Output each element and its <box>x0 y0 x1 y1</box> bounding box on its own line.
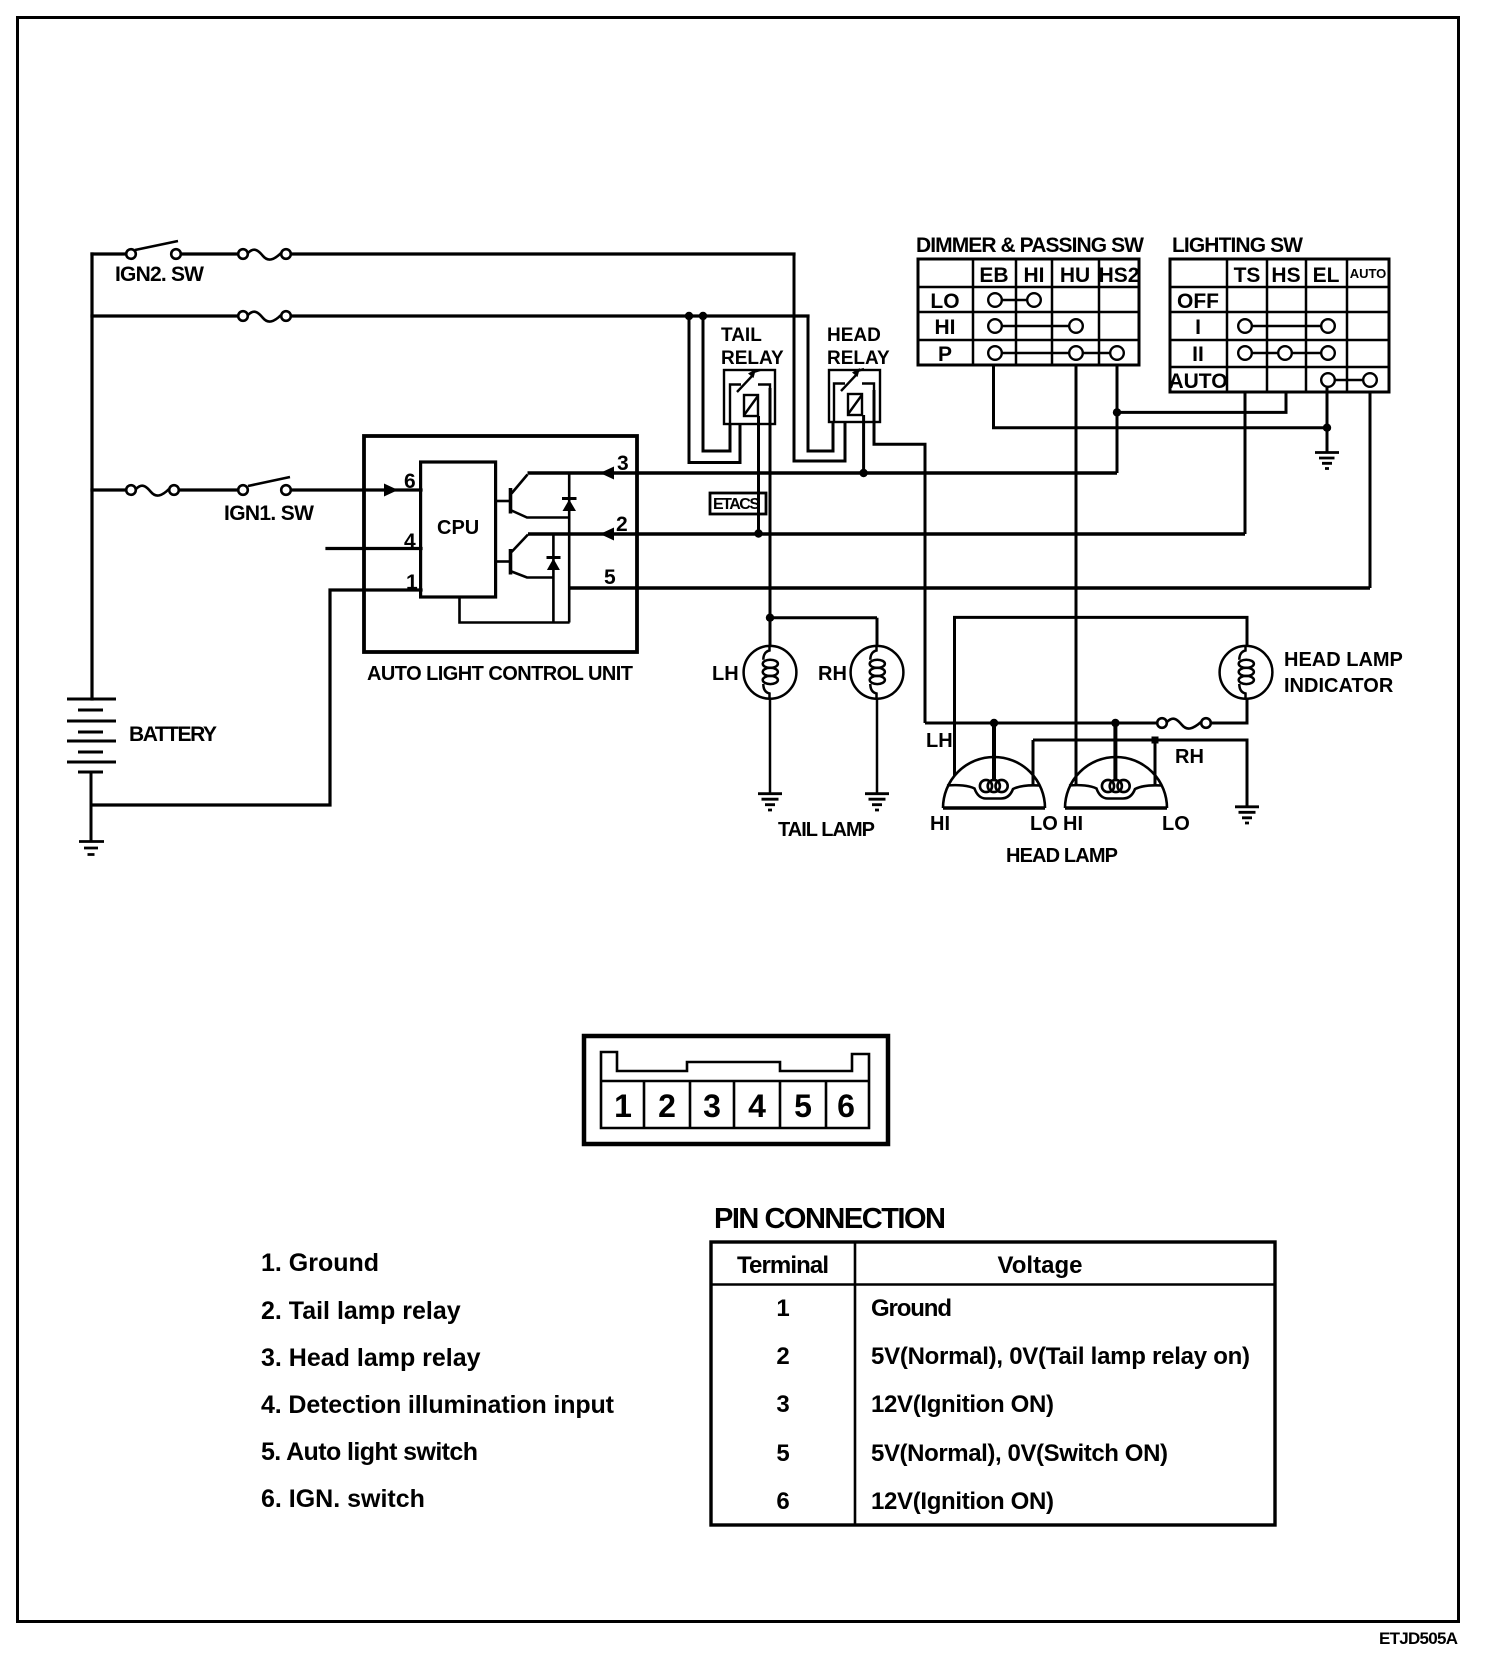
svg-text:TAIL: TAIL <box>721 325 762 346</box>
wire LO rail y=740 <box>1033 740 1247 807</box>
svg-text:1: 1 <box>614 1088 632 1124</box>
svg-text:5: 5 <box>794 1088 812 1124</box>
svg-text:RELAY: RELAY <box>827 348 890 369</box>
svg-text:Voltage: Voltage <box>998 1252 1083 1279</box>
svg-text:AUTO: AUTO <box>1350 266 1387 281</box>
svg-text:1: 1 <box>406 571 418 594</box>
fuse head lamp indicator <box>1157 718 1211 728</box>
wire AUTO column drop to wire5 <box>1369 392 1372 588</box>
HEAD RELAY wiring risers <box>794 254 845 461</box>
wire tail lamp feed <box>770 618 877 647</box>
svg-text:LH: LH <box>712 663 739 685</box>
wire HU column long drop <box>1075 365 1078 785</box>
svg-text:5V(Normal), 0V(Tail lamp relay: 5V(Normal), 0V(Tail lamp relay on) <box>871 1343 1250 1370</box>
svg-text:ETJD505A: ETJD505A <box>1379 1629 1458 1648</box>
svg-text:6: 6 <box>837 1088 855 1124</box>
wire pin4 stub <box>327 547 421 550</box>
junction dot wire2 etacs <box>754 529 762 537</box>
TAIL RELAY wiring risers <box>689 316 740 463</box>
svg-text:HU: HU <box>1060 264 1090 287</box>
svg-text:3: 3 <box>776 1391 789 1418</box>
svg-text:HI: HI <box>935 316 956 339</box>
IGN2 fuse <box>238 249 291 259</box>
wire riser B head relay <box>808 316 833 451</box>
svg-text:4: 4 <box>748 1088 766 1124</box>
svg-text:HS2: HS2 <box>1099 264 1140 287</box>
svg-text:HI: HI <box>1063 813 1083 835</box>
svg-text:3: 3 <box>703 1088 721 1124</box>
svg-text:BATTERY: BATTERY <box>129 723 217 746</box>
svg-text:HEAD LAMP: HEAD LAMP <box>1284 649 1403 671</box>
lamp tail LH <box>744 646 797 794</box>
headlamp dome LH <box>943 757 1045 808</box>
wire fuse feed row y=316 <box>92 314 808 317</box>
TAIL LAMP branch <box>766 614 774 622</box>
svg-text:6. IGN. switch: 6. IGN. switch <box>261 1485 425 1513</box>
svg-text:IGN2. SW: IGN2. SW <box>115 263 204 286</box>
svg-text:ETACS: ETACS <box>713 496 760 513</box>
svg-text:RH: RH <box>1175 746 1204 768</box>
junction dot LH center <box>990 719 998 727</box>
svg-text:12V(Ignition ON): 12V(Ignition ON) <box>871 1488 1054 1515</box>
junction dot RH center <box>1111 719 1119 727</box>
battery BATTERY <box>67 699 116 841</box>
arrow pin3 <box>600 467 614 480</box>
svg-text:4. Detection illumination inpu: 4. Detection illumination input <box>261 1391 615 1419</box>
relay K2 HEAD RELAY <box>829 369 880 422</box>
svg-text:DIMMER & PASSING SW: DIMMER & PASSING SW <box>916 234 1144 257</box>
lamp tail RH <box>851 646 904 794</box>
arrow pin6 <box>384 484 398 497</box>
svg-text:2: 2 <box>616 513 628 536</box>
ground tail RH <box>865 794 889 810</box>
svg-text:P: P <box>938 343 952 366</box>
pin connection table <box>711 1242 1275 1525</box>
svg-text:PIN CONNECTION: PIN CONNECTION <box>714 1203 946 1235</box>
svg-text:5: 5 <box>776 1440 789 1467</box>
contacts lighting I row <box>1238 319 1335 333</box>
wire TS column drop to wire2 <box>1244 392 1247 534</box>
svg-text:IGN1. SW: IGN1. SW <box>224 502 314 525</box>
wire 3 <box>528 471 1118 474</box>
wire EL column drop <box>1326 386 1329 452</box>
svg-text:HS: HS <box>1271 264 1300 287</box>
contacts dimmer HI row <box>988 319 1083 333</box>
svg-text:II: II <box>1192 343 1204 366</box>
svg-text:5: 5 <box>604 566 616 589</box>
ground lighting sw <box>1315 453 1339 469</box>
svg-text:6: 6 <box>776 1488 789 1515</box>
svg-text:2. Tail lamp relay: 2. Tail lamp relay <box>261 1297 461 1325</box>
tap square RH LO <box>1152 737 1159 744</box>
svg-text:2: 2 <box>776 1343 789 1370</box>
connector pin numbers 1-6 <box>614 1088 855 1124</box>
svg-text:2: 2 <box>658 1088 676 1124</box>
contacts dimmer LO row <box>988 293 1041 307</box>
wire riser B tail relay <box>703 316 730 451</box>
contacts lighting AUTO row <box>1321 373 1377 387</box>
svg-text:LO: LO <box>1030 813 1058 835</box>
svg-text:4: 4 <box>404 530 416 553</box>
wire battery bus vertical <box>90 254 93 699</box>
svg-text:OFF: OFF <box>1177 290 1219 313</box>
wire tail relay output <box>769 388 772 618</box>
svg-text:HEAD LAMP: HEAD LAMP <box>1006 845 1118 867</box>
wire head lamp common y=723 <box>925 699 1247 724</box>
wire riser A tail relay <box>689 316 740 463</box>
wire EB to EL ground <box>994 365 1328 428</box>
svg-text:1. Ground: 1. Ground <box>261 1249 379 1277</box>
contacts dimmer P row <box>988 346 1124 360</box>
MAIN WIRES <box>92 254 808 805</box>
transistor Q2 <box>496 535 554 578</box>
svg-text:5V(Normal), 0V(Switch ON): 5V(Normal), 0V(Switch ON) <box>871 1440 1168 1467</box>
terminal legend list <box>261 1249 615 1513</box>
svg-text:HEAD: HEAD <box>827 325 881 346</box>
svg-text:EB: EB <box>979 264 1008 287</box>
svg-text:RH: RH <box>818 663 847 685</box>
IGN1 fuse <box>126 485 179 495</box>
svg-text:AUTO LIGHT CONTROL UNIT: AUTO LIGHT CONTROL UNIT <box>367 663 633 685</box>
svg-text:EL: EL <box>1313 264 1340 287</box>
svg-text:INDICATOR: INDICATOR <box>1284 675 1394 697</box>
svg-text:3: 3 <box>617 452 629 475</box>
svg-text:HI: HI <box>930 813 950 835</box>
fuse on y=316 row <box>238 311 291 321</box>
wire 2 <box>528 532 1245 535</box>
wire HS2 column riser <box>1116 365 1119 473</box>
IGN1 switch <box>238 477 291 495</box>
svg-text:RELAY: RELAY <box>721 348 784 369</box>
svg-text:5. Auto light switch: 5. Auto light switch <box>261 1438 478 1466</box>
CPU U1 <box>421 462 496 597</box>
wire head relay output <box>874 390 925 723</box>
wire LH center feed <box>992 723 996 781</box>
diode D1 <box>562 473 577 623</box>
svg-text:3. Head lamp relay: 3. Head lamp relay <box>261 1344 481 1372</box>
internal emitter bus <box>460 597 570 623</box>
ground battery <box>79 842 104 855</box>
svg-text:1: 1 <box>776 1295 789 1322</box>
svg-text:I: I <box>1195 316 1201 339</box>
wire head lamp top rail y=617.4 <box>955 617 1248 775</box>
transistor Q1 <box>496 475 570 518</box>
headlamp dome RH <box>1065 757 1167 808</box>
wire pin1 to battery return <box>92 590 421 805</box>
lamp head lamp indicator <box>1220 646 1273 699</box>
svg-text:LO: LO <box>1162 813 1190 835</box>
svg-text:LH: LH <box>926 730 953 752</box>
diode D2 <box>547 534 561 623</box>
ground tail LH <box>758 794 782 810</box>
svg-text:6: 6 <box>404 470 416 493</box>
svg-text:Ground: Ground <box>871 1295 952 1322</box>
relay K1 TAIL RELAY <box>724 370 775 424</box>
junction dot tail relay feed B <box>699 312 707 320</box>
connector drawing <box>584 1036 888 1144</box>
svg-text:LIGHTING SW: LIGHTING SW <box>1172 234 1303 257</box>
wire 5 <box>570 586 1370 589</box>
svg-text:12V(Ignition ON): 12V(Ignition ON) <box>871 1391 1054 1418</box>
svg-text:TS: TS <box>1234 264 1261 287</box>
AUTO LIGHT CONTROL UNIT box <box>364 436 637 652</box>
svg-text:HI: HI <box>1024 264 1045 287</box>
wire head relay coil to wire3 <box>862 415 865 473</box>
pin connection table text <box>737 1252 1250 1515</box>
ETACS box <box>710 493 766 514</box>
junction dot tail relay feed A <box>685 312 693 320</box>
arrow pin2 <box>600 528 614 541</box>
wire ETACS drop <box>757 416 760 534</box>
wire HS branch <box>1117 392 1286 412</box>
wire IGN1 row y=490 <box>92 488 421 491</box>
contacts lighting II row <box>1238 346 1335 360</box>
svg-text:TAIL LAMP: TAIL LAMP <box>778 819 875 841</box>
wire IGN2 row y=254 <box>92 252 794 255</box>
svg-text:Terminal: Terminal <box>737 1252 829 1279</box>
svg-text:LO: LO <box>930 290 959 313</box>
svg-text:CPU: CPU <box>437 517 479 539</box>
IGN2 switch <box>126 241 181 259</box>
wire riser A head relay from IGN2 <box>794 254 845 461</box>
svg-text:AUTO: AUTO <box>1168 370 1227 393</box>
ground indicator rail <box>1235 807 1259 823</box>
junction dot HS2-HS branch <box>1113 408 1121 416</box>
wire RH center feed <box>1113 723 1117 781</box>
